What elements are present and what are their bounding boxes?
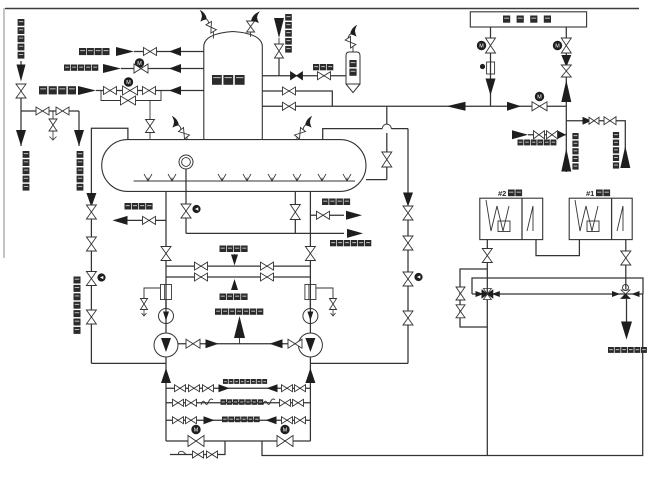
- valve: [16, 84, 26, 98]
- valves row1 right: [282, 385, 293, 392]
- valve: [288, 339, 302, 348]
- valve: [186, 339, 200, 348]
- valve: [403, 236, 413, 250]
- valve: [305, 247, 315, 261]
- flow arrow up 三段抽汽来: [561, 149, 571, 172]
- right strainer drain branch: [316, 288, 333, 299]
- tower relief valve 1: [212, 31, 214, 39]
- HP valve-stem leak steam 高压门杆漏汽 arrow: [512, 130, 528, 139]
- node: from #1 deaerator inlet (#1除氧器来) label: [18, 19, 25, 26]
- left strainer drain branch: [144, 288, 160, 299]
- label 至#2机轴封: [77, 151, 84, 158]
- wire manhole dip line: [185, 169, 187, 233]
- aux left drop wire: [490, 27, 492, 106]
- motor valve: [486, 38, 496, 53]
- valve: [403, 206, 413, 220]
- wire fourth extraction branch: [566, 121, 625, 168]
- right strainer: [305, 285, 316, 300]
- dosing arrow down: [231, 255, 238, 266]
- flow arrow down: [486, 79, 496, 96]
- svg-text:#2: #2: [498, 189, 506, 198]
- feed pump P2: [298, 333, 322, 357]
- svg-text:M: M: [137, 61, 142, 67]
- flow arrow down: [17, 65, 26, 82]
- label 化学加药 top: [220, 246, 227, 253]
- valve: [49, 119, 57, 131]
- valve with c circle: [181, 204, 191, 218]
- aux steam header box 辅汽联箱: [470, 12, 586, 27]
- valve: [482, 249, 492, 263]
- wire third extraction: [565, 106, 567, 172]
- flow arrow: [476, 291, 484, 297]
- flow arrow right: [346, 211, 362, 220]
- valve: [195, 273, 208, 281]
- valve: [318, 72, 331, 80]
- valve: [193, 451, 204, 458]
- flow arrow up 四段抽汽来: [620, 146, 630, 168]
- svg-text:M: M: [537, 94, 542, 100]
- deaerator tower 除氧塔 vessel: [204, 32, 262, 140]
- valve bypass loop: [460, 269, 487, 327]
- motor circle: [477, 41, 485, 49]
- heater 1 tube bundle: [575, 200, 598, 231]
- bottom drain branch wire: [170, 441, 225, 455]
- vessel vent stub: [352, 46, 354, 52]
- wire: [407, 220, 409, 363]
- wire suction to right pump: [310, 362, 408, 364]
- bypass valve: [121, 96, 136, 105]
- valve: [604, 117, 616, 125]
- valve: [56, 107, 69, 115]
- HP heater #2 高加 shell: [480, 198, 543, 239]
- label 高压门杆漏汽: [518, 140, 524, 146]
- valve: [195, 262, 208, 270]
- valve: [144, 48, 157, 56]
- label 化学加药 bottom: [220, 294, 227, 301]
- drain row 2 wire: [166, 402, 310, 404]
- label 至疏水扩容器: [330, 240, 336, 246]
- motor valve M1: [188, 436, 204, 447]
- svg-text:#1: #1: [586, 189, 594, 198]
- wire: [96, 90, 204, 92]
- valve: [143, 87, 156, 95]
- label 高加空气管: [285, 14, 292, 21]
- valve on tank stub: [146, 120, 155, 133]
- left booster pump: [165, 300, 167, 334]
- flow arrow up: [305, 368, 315, 383]
- label 连排 inside vessel: [349, 60, 356, 67]
- tank relief valve left: [186, 137, 188, 140]
- tower relief valve 2: [247, 21, 255, 32]
- flow arrow left at tower: [169, 64, 181, 73]
- flow arrow right solid: [507, 102, 521, 111]
- flow arrow left: [113, 216, 128, 225]
- label 至再热器减温水: [215, 309, 221, 315]
- wire left discharge: [165, 357, 167, 441]
- motor valve: [561, 38, 571, 53]
- feedwater control valve A: [482, 290, 493, 298]
- valve: [261, 262, 274, 270]
- wire steam drop to tank: [386, 106, 388, 124]
- svg-text:M: M: [194, 427, 199, 433]
- control station bypass box: [472, 278, 643, 294]
- valve: [86, 205, 96, 219]
- hose squiggle: [201, 399, 213, 405]
- valves row2 right: [280, 399, 291, 406]
- aux right drop wire: [565, 27, 567, 106]
- flow arrow right into header: [558, 131, 566, 139]
- flow arrow up: [561, 80, 571, 102]
- valve: [317, 211, 330, 219]
- label 连排来: [313, 64, 319, 70]
- label 除氧塔: [212, 75, 222, 85]
- drain row 3 wire: [166, 419, 310, 421]
- valve: [403, 311, 413, 325]
- valve: [456, 305, 465, 318]
- valve: [382, 152, 392, 167]
- reheater spray water arrow 至再热器减温水: [239, 338, 241, 344]
- tank internal spray header: [134, 180, 355, 182]
- wire left pump suction: [165, 191, 167, 309]
- wire condensate to tank stub: [149, 101, 151, 141]
- label #1给水泵再循环: [74, 277, 81, 284]
- flow arrow left at tower: [169, 86, 181, 95]
- flow arrow left: [447, 102, 466, 111]
- inlet line 3: 凝结水来 (from condensate) label: [39, 86, 47, 94]
- label 至#1机轴封: [23, 151, 30, 158]
- wire between pump discharges: [178, 343, 298, 345]
- border frame left: [3, 8, 5, 258]
- wire feedwater riser: [486, 294, 488, 456]
- valve: [261, 273, 274, 281]
- wire: [20, 98, 22, 146]
- valve with c circle: [86, 272, 96, 286]
- feedwater control valve B: [621, 290, 630, 294]
- border frame top: [5, 8, 639, 10]
- wire recirculation to tank: [91, 128, 128, 363]
- valves row2 left: [173, 399, 184, 406]
- wire: [278, 38, 280, 44]
- manhole double circle: [179, 155, 193, 169]
- orifice device: [487, 62, 495, 74]
- valve: [283, 87, 296, 95]
- flow arrow right: [116, 47, 134, 56]
- spray nozzles: [144, 174, 152, 181]
- chemical dosing header 1: [166, 265, 310, 267]
- wire heater1 outlet: [625, 240, 627, 289]
- label 四段抽汽来: [613, 132, 619, 138]
- HP heater air pipe 高加空气管 arrow: [274, 18, 284, 38]
- motor circle: [281, 425, 289, 433]
- feed pump P1: [154, 333, 178, 357]
- bypass wire under condensate line: [101, 91, 161, 101]
- inlet line 1: 疏水泵来 (from drain pump) label: [79, 48, 86, 55]
- label 化学取样: [125, 203, 132, 210]
- wire tank outlet to suction header: [323, 129, 383, 140]
- valve with c circle: [403, 272, 413, 286]
- valve: [143, 216, 156, 224]
- wire recirc to left pump: [91, 362, 166, 364]
- valve: [104, 87, 117, 95]
- flow arrow: [612, 291, 620, 297]
- flow arrow: [492, 291, 500, 297]
- label 出口管道放空气: [221, 399, 227, 405]
- valve: [456, 287, 465, 300]
- right chemical sampling wire: [310, 214, 344, 216]
- flow arrow right: [78, 86, 96, 95]
- wire drop from tank: [294, 191, 296, 233]
- wire riser to heater 2: [486, 240, 488, 294]
- motor valve: [532, 102, 547, 111]
- heater 2 tube bundle: [486, 200, 509, 231]
- label 三段抽汽来: [572, 133, 578, 139]
- valve: [283, 102, 296, 110]
- valve: [275, 44, 284, 58]
- wire heater2 to heater1: [536, 240, 579, 256]
- drain box bottom wire: [166, 440, 310, 442]
- check valve solid: [583, 117, 592, 125]
- valves row1 left: [175, 385, 186, 392]
- tank relief valve stub right: [296, 137, 298, 140]
- solid valve: [291, 72, 303, 80]
- wire: [20, 61, 22, 66]
- label 出口管道放水: [222, 417, 228, 423]
- valve: [36, 107, 49, 115]
- flow arrow left: [266, 416, 277, 424]
- flow arrow down 至锅炉省煤器: [621, 322, 632, 340]
- svg-text:M: M: [555, 43, 560, 49]
- drain symbol: [50, 131, 57, 140]
- continuous blowdown vessel 连排: [346, 52, 360, 84]
- label 化学取样: [322, 199, 329, 206]
- main pipe through station: [472, 293, 643, 295]
- flow arrow down: [86, 193, 96, 207]
- drain row 1 wire: [166, 387, 310, 389]
- valves row3 right: [282, 417, 293, 424]
- flow arrow up: [161, 368, 171, 383]
- wire right pump suction: [309, 191, 311, 309]
- flow arrow right 至疏水扩容器: [347, 229, 363, 238]
- valve: [290, 205, 300, 220]
- tower relief valve 2 stub: [250, 31, 252, 37]
- motor circle M: [535, 92, 543, 100]
- motor circle: [553, 41, 561, 49]
- wire steam header: [262, 105, 566, 107]
- wire tower blowdown line: [262, 75, 346, 77]
- motor circle: [192, 425, 200, 433]
- flow arrow left: [270, 339, 283, 348]
- left strainer: [161, 285, 172, 300]
- flow arrow right: [204, 416, 215, 424]
- chemical dosing header 2: [166, 276, 310, 278]
- svg-text:M: M: [126, 80, 131, 86]
- left chemical sampling 化学取样 wire: [120, 219, 166, 221]
- valve: [621, 251, 631, 265]
- label 逆止门后管道放水: [223, 379, 228, 384]
- wire: [528, 134, 566, 136]
- valve: [86, 310, 96, 324]
- motor valve M2: [277, 436, 293, 447]
- valves row3 left: [173, 417, 184, 424]
- wire to drain flash tank: [186, 232, 344, 234]
- wire: [78, 111, 80, 146]
- flow arrow down to #1 unit gland seal: [16, 130, 26, 146]
- hose squiggle right: [263, 399, 275, 405]
- wire header y=111: [21, 110, 79, 112]
- flow arrow right: [219, 384, 230, 392]
- wire: [121, 68, 204, 70]
- dosing arrow up: [231, 279, 238, 290]
- label 辅汽联箱: [503, 16, 510, 23]
- flow arrow down: [561, 55, 571, 67]
- valve: [547, 131, 558, 139]
- valve: [86, 237, 96, 251]
- HP heater #1 高加 shell: [569, 198, 632, 239]
- flow arrow right: [206, 339, 219, 348]
- valve: [561, 65, 571, 77]
- valve: [534, 131, 545, 139]
- right booster pump: [309, 300, 311, 334]
- valve: [207, 451, 218, 458]
- deaerator storage tank vessel: [102, 140, 366, 192]
- feedwater outflow wire to right: [262, 294, 643, 456]
- motor-operated valve: [134, 64, 148, 73]
- wire: [134, 51, 204, 53]
- flow arrow: [632, 291, 640, 297]
- label 至锅炉省煤器: [608, 347, 614, 353]
- wire stub drain: [52, 111, 54, 119]
- motor circle M: [135, 59, 143, 67]
- flow arrow down to #2 unit gland seal: [74, 130, 84, 146]
- flow arrow left at tower: [169, 47, 181, 56]
- svg-text:M: M: [283, 427, 288, 433]
- control valve: [123, 86, 138, 95]
- wire: [262, 91, 332, 106]
- inlet line 2: 高加疏水来 (from HP heater drains) label: [64, 65, 70, 71]
- flow arrow left: [267, 384, 278, 392]
- motor circle M: [124, 78, 132, 86]
- flow arrow right: [103, 64, 121, 73]
- svg-text:M: M: [479, 43, 484, 49]
- flow arrow down: [403, 193, 413, 207]
- economizer outlet wire: [626, 299, 628, 322]
- hose hook: [178, 451, 186, 455]
- valve: [161, 247, 171, 261]
- wire right discharge: [309, 357, 311, 441]
